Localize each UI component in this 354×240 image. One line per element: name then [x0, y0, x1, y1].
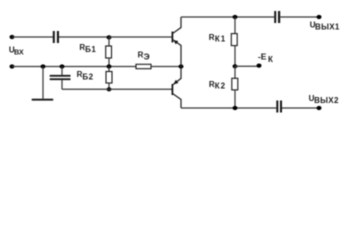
label Uвых2: [309, 94, 339, 105]
node divider junction: [107, 64, 112, 68]
svg-text:-Е: -Е: [258, 51, 267, 61]
label RБ2: [77, 70, 94, 82]
svg-text:ВЫХ1: ВЫХ1: [315, 23, 340, 32]
svg-text:ВХ: ВХ: [14, 48, 24, 57]
label -Ек: [258, 51, 273, 63]
node top rail junction: [233, 15, 238, 19]
wire top rail: [181, 16, 274, 18]
label Uвх: [9, 45, 24, 56]
wire C3 to output1: [280, 16, 319, 18]
node supply terminal: [257, 64, 262, 68]
label RБ1: [79, 43, 96, 54]
svg-text:К2: К2: [215, 81, 226, 90]
wire top junction to RК1: [234, 17, 236, 34]
capacitor C4: [276, 101, 282, 113]
wire RЭ to emitter node: [151, 66, 181, 68]
node base1 junction: [107, 35, 112, 39]
svg-text:К1: К1: [215, 34, 226, 43]
wire input+ to C1: [12, 36, 53, 38]
label RК2: [209, 80, 226, 90]
capacitor C1: [53, 31, 59, 43]
resistor RК2: [232, 78, 238, 90]
wire C1 to base node: [59, 36, 109, 38]
wire divider to RБ2: [108, 67, 110, 72]
wire RБ2 to base2 rail: [108, 83, 110, 89]
ground: [32, 67, 54, 101]
wire RК2 to bottom rail: [234, 90, 236, 108]
node supply junction: [233, 64, 238, 68]
node output2 terminal: [317, 106, 322, 110]
node bottom rail junction: [233, 106, 238, 110]
resistor RБ1: [106, 46, 112, 58]
capacitor C3: [274, 11, 280, 23]
svg-text:Б2: Б2: [82, 72, 93, 81]
wire supply junction to RК2: [234, 66, 236, 78]
svg-text:К: К: [268, 55, 273, 64]
wire base node down to RБ1: [108, 37, 110, 46]
node ground tap: [41, 64, 46, 68]
wire C4 to output2: [282, 107, 319, 109]
wire base2 rail: [62, 88, 172, 90]
resistor RЭ: [136, 64, 151, 68]
wire supply stub: [235, 65, 259, 67]
label RК1: [209, 33, 227, 44]
wire bottom rail: [181, 107, 276, 109]
wire RБ1 to mid rail: [108, 58, 110, 67]
transistor T1: [172, 17, 181, 67]
svg-text:R: R: [209, 33, 215, 42]
node emitter junction: [179, 64, 184, 68]
resistor RК1: [231, 34, 237, 46]
node input+ terminal: [10, 35, 15, 39]
wire mid rail left: [12, 66, 136, 68]
node input- terminal: [10, 64, 15, 68]
node base2 junction: [107, 87, 112, 91]
capacitor C2: [50, 67, 71, 90]
label RЭ: [138, 50, 150, 61]
node output1 terminal: [317, 15, 322, 19]
node C2 tap: [60, 64, 65, 68]
label Uвых1: [310, 21, 340, 32]
svg-text:Б1: Б1: [85, 45, 96, 54]
wire base node to T1 base: [109, 36, 172, 38]
svg-text:Э: Э: [144, 52, 150, 62]
wire RК1 to supply junction: [234, 46, 236, 67]
transistor T2: [172, 67, 181, 109]
resistor RБ2: [106, 72, 112, 84]
svg-text:ВЫХ2: ВЫХ2: [314, 96, 339, 105]
